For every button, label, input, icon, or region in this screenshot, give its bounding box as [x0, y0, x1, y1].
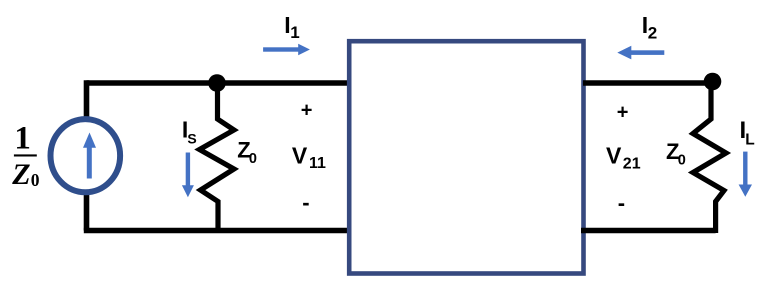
wire: top-right horizontal: [583, 80, 713, 86]
wire: bottom-left horizontal: [84, 228, 351, 234]
label I2 (port 2 current): [642, 12, 657, 43]
label V21 (port 2 voltage): [606, 142, 641, 172]
svg-text:2: 2: [648, 24, 657, 43]
label Z0 (left resistor value): [237, 138, 257, 168]
label V11 (port 1 voltage): [292, 142, 326, 172]
svg-text:V: V: [606, 142, 622, 168]
label I1 (port 1 current): [284, 12, 299, 42]
svg-text:0: 0: [249, 151, 257, 167]
svg-text:V: V: [292, 142, 308, 168]
label IL (load current): [740, 117, 755, 148]
svg-text:1: 1: [290, 23, 299, 42]
arrow IL (down): [739, 152, 752, 197]
wire: bottom-right horizontal: [581, 228, 716, 234]
svg-text:-: -: [618, 190, 625, 215]
svg-text:Z: Z: [11, 158, 30, 191]
resistor Z0 (right): [693, 85, 726, 233]
svg-text:11: 11: [309, 155, 326, 172]
current source U1: [51, 119, 121, 192]
resistor Z0 (left): [200, 87, 235, 233]
svg-text:0: 0: [678, 152, 686, 168]
arrow I1 (right): [263, 44, 310, 56]
svg-text:-: -: [302, 190, 309, 215]
wire: left vertical rail: [84, 80, 90, 230]
arrow I2 (left): [617, 46, 664, 60]
node A (left junction dot): [208, 74, 226, 92]
arrow IS (down): [182, 153, 194, 198]
current source arrow (up): [83, 133, 96, 179]
label Z0 (right resistor value): [666, 139, 686, 169]
svg-text:S: S: [187, 131, 196, 147]
label IS (source branch current): [182, 117, 197, 147]
two-port network box: [349, 41, 583, 273]
svg-text:1: 1: [14, 121, 31, 157]
svg-text:+: +: [301, 100, 313, 122]
wire: top-left horizontal: [87, 80, 350, 86]
svg-text:+: +: [617, 102, 629, 124]
svg-text:21: 21: [623, 155, 641, 172]
svg-text:0: 0: [31, 170, 40, 190]
svg-text:L: L: [745, 132, 754, 149]
node B (right junction dot): [704, 73, 722, 91]
label 1/Z0 (source value): [11, 121, 40, 191]
